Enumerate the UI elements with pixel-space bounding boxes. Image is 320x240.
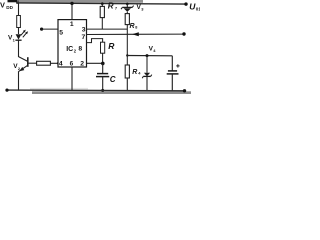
resistor R8 (Rx) — [125, 14, 129, 25]
wire Rx down — [126, 25, 128, 56]
VDD terminal bar — [8, 0, 18, 2]
wire R1 top — [18, 3, 20, 16]
bottom haze — [30, 88, 88, 90]
bottom rail — [7, 89, 185, 92]
resistor R1 — [17, 16, 21, 28]
svg-text:7: 7 — [115, 6, 118, 11]
svg-text:6: 6 — [70, 61, 74, 68]
svg-text:2: 2 — [80, 60, 84, 67]
wire R3-pin4 — [50, 62, 58, 64]
electrolytic capacitor + — [171, 56, 173, 71]
pin 7 wire — [87, 33, 185, 35]
terminal dot U — [184, 2, 187, 5]
svg-text:8: 8 — [135, 26, 137, 30]
resistor R7 top wire — [101, 2, 104, 5]
junction dot pin2/R/C — [101, 62, 105, 66]
svg-text:4: 4 — [59, 60, 63, 67]
top gray band — [17, 0, 143, 3]
mid-right rail — [127, 55, 172, 57]
IC box U1 — [58, 20, 87, 67]
svg-text:C: C — [110, 75, 116, 84]
pin 3 wire — [87, 28, 128, 30]
svg-text:4: 4 — [138, 70, 141, 75]
resistor R7 — [100, 6, 104, 17]
zener V3 — [126, 3, 129, 6]
resistor R4 — [126, 56, 128, 66]
svg-text:1: 1 — [13, 38, 16, 43]
svg-text:3: 3 — [141, 6, 144, 11]
pin 1 wire — [70, 2, 73, 5]
top rail — [16, 3, 186, 4]
resistor R3 (base) — [37, 61, 51, 65]
pin 2 wire — [87, 62, 104, 64]
capacitor C — [102, 63, 104, 73]
pin 5 wire — [40, 28, 43, 31]
svg-text:7: 7 — [82, 34, 86, 41]
svg-text:8: 8 — [78, 45, 82, 52]
resistor R (middle) — [101, 42, 105, 53]
LED V1 — [16, 34, 22, 39]
terminal dot pin7 line — [182, 32, 185, 35]
svg-text:DD: DD — [6, 5, 13, 10]
svg-text:4: 4 — [153, 48, 156, 53]
svg-text:R: R — [108, 2, 114, 11]
junction dot mid-rail — [126, 54, 128, 56]
zener V4 (bottom) — [146, 54, 149, 57]
VDD terminal tick — [17, 0, 19, 4]
svg-text:1: 1 — [70, 21, 74, 28]
svg-text:5: 5 — [59, 29, 63, 36]
svg-text:V: V — [0, 0, 5, 9]
LED arrow 1 — [21, 31, 25, 35]
arrowhead on pin7 wire — [132, 32, 139, 36]
plus sign — [177, 64, 179, 67]
wire R1-LED — [18, 28, 20, 35]
bottom gray band — [32, 91, 191, 94]
base wire — [28, 62, 37, 64]
svg-text:01: 01 — [196, 6, 200, 11]
transistor V2 — [19, 57, 28, 62]
svg-text:R: R — [132, 69, 137, 76]
wire LED-V2 collector — [18, 40, 20, 57]
LED arrow 2 — [23, 33, 27, 38]
svg-text:IC: IC — [66, 46, 73, 53]
svg-text:R: R — [130, 23, 135, 30]
svg-text:3: 3 — [82, 27, 86, 34]
svg-text:R: R — [108, 41, 115, 51]
